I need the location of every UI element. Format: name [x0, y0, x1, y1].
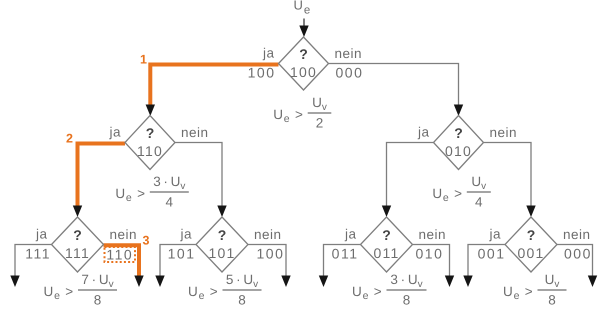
svg-text:111: 111 — [65, 245, 90, 261]
svg-text:?: ? — [146, 125, 155, 141]
svg-text:ja: ja — [35, 227, 48, 242]
svg-text:?: ? — [527, 227, 536, 243]
svg-text:8: 8 — [403, 293, 411, 308]
svg-text:nein: nein — [181, 125, 209, 140]
svg-text:100: 100 — [248, 65, 276, 81]
svg-text:010: 010 — [445, 143, 472, 159]
svg-text:nein: nein — [110, 227, 138, 242]
svg-text:100: 100 — [290, 64, 317, 80]
svg-text:101: 101 — [209, 245, 236, 261]
svg-text:110: 110 — [106, 247, 133, 263]
svg-text:ja: ja — [108, 125, 121, 140]
svg-text:000: 000 — [564, 246, 592, 262]
svg-text:nein: nein — [254, 227, 282, 242]
svg-text:?: ? — [382, 227, 391, 243]
svg-text:3: 3 — [143, 233, 150, 247]
svg-text:nein: nein — [563, 227, 591, 242]
svg-text:010: 010 — [416, 246, 444, 262]
svg-text:ja: ja — [344, 227, 357, 242]
svg-text:ja: ja — [262, 46, 275, 61]
svg-text:2: 2 — [66, 131, 73, 145]
svg-text:011: 011 — [332, 246, 359, 262]
svg-text:nein: nein — [335, 46, 363, 61]
svg-text:4: 4 — [475, 195, 483, 210]
svg-text:1: 1 — [140, 53, 147, 67]
svg-text:001: 001 — [518, 245, 545, 261]
svg-text:4: 4 — [166, 195, 174, 210]
svg-text:8: 8 — [548, 293, 556, 308]
svg-text:ja: ja — [179, 227, 192, 242]
svg-text:ja: ja — [488, 227, 501, 242]
svg-text:?: ? — [299, 46, 308, 62]
svg-text:101: 101 — [168, 246, 196, 262]
svg-text:nein: nein — [490, 125, 518, 140]
svg-text:ja: ja — [417, 125, 430, 140]
svg-text:011: 011 — [374, 245, 400, 261]
svg-text:nein: nein — [419, 227, 447, 242]
svg-text:000: 000 — [336, 65, 364, 81]
svg-text:2: 2 — [316, 116, 324, 131]
svg-text:8: 8 — [94, 293, 102, 308]
svg-text:100: 100 — [257, 246, 285, 262]
svg-text:?: ? — [218, 227, 227, 243]
svg-text:110: 110 — [137, 143, 163, 159]
svg-text:8: 8 — [238, 293, 246, 308]
svg-text:001: 001 — [478, 246, 506, 262]
svg-text:?: ? — [454, 125, 463, 141]
svg-text:111: 111 — [25, 246, 51, 262]
svg-text:?: ? — [73, 227, 82, 243]
